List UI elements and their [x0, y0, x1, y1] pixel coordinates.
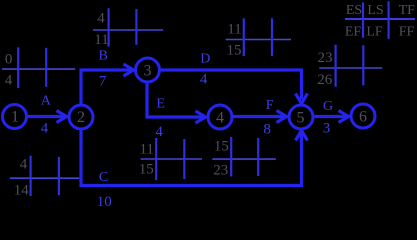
node 6 — [351, 104, 375, 128]
svg-text:3: 3 — [323, 121, 331, 137]
svg-text:6: 6 — [359, 108, 367, 125]
svg-text:15: 15 — [227, 43, 242, 59]
arrowhead B — [124, 64, 134, 76]
node 4 — [208, 105, 232, 129]
svg-text:15: 15 — [214, 139, 229, 155]
table A (ES/EF 0/4) — [2, 47, 75, 88]
table D (11/15) — [226, 18, 291, 58]
svg-text:4: 4 — [216, 109, 224, 126]
svg-text:EF: EF — [345, 25, 362, 40]
svg-text:4: 4 — [41, 121, 49, 137]
svg-text:C: C — [99, 170, 108, 185]
legend table — [345, 1, 415, 39]
svg-text:8: 8 — [263, 122, 271, 138]
svg-text:4: 4 — [155, 124, 163, 140]
table G (23/26) — [317, 45, 382, 88]
wire C — [81, 131, 302, 186]
svg-text:5: 5 — [297, 109, 305, 126]
node 3 — [136, 58, 160, 82]
svg-text:ES: ES — [346, 3, 362, 18]
svg-text:4: 4 — [5, 73, 13, 89]
svg-text:11: 11 — [227, 22, 241, 38]
wire E — [147, 84, 203, 118]
table E (11/15) — [139, 138, 202, 180]
svg-text:TF: TF — [399, 3, 416, 18]
svg-text:23: 23 — [213, 163, 228, 179]
svg-text:0: 0 — [5, 52, 13, 68]
wire A — [27, 115, 64, 118]
wire F — [233, 115, 284, 118]
svg-text:F: F — [266, 98, 274, 113]
wire G — [315, 115, 347, 118]
svg-text:10: 10 — [97, 194, 112, 210]
svg-text:11: 11 — [94, 32, 108, 48]
node 1 — [3, 105, 27, 129]
wire D — [161, 70, 302, 99]
node 5 — [289, 105, 313, 129]
svg-text:B: B — [99, 49, 108, 64]
svg-text:14: 14 — [14, 183, 30, 199]
arrowhead C — [296, 131, 308, 141]
svg-text:7: 7 — [99, 74, 107, 90]
arrowhead F — [277, 111, 287, 123]
svg-text:2: 2 — [77, 109, 85, 126]
svg-text:E: E — [156, 97, 165, 112]
svg-text:3: 3 — [144, 62, 152, 79]
svg-text:11: 11 — [139, 142, 153, 158]
arrowhead D — [296, 94, 308, 104]
svg-text:26: 26 — [317, 72, 333, 88]
table F (15/23) — [212, 137, 275, 179]
svg-text:G: G — [323, 99, 333, 114]
svg-text:D: D — [200, 51, 210, 66]
table B (4/11) — [93, 8, 163, 48]
table C (4/14) — [10, 156, 79, 199]
svg-text:1: 1 — [11, 109, 19, 126]
svg-text:4: 4 — [20, 157, 28, 173]
svg-text:4: 4 — [97, 11, 105, 27]
arrowhead E — [196, 111, 206, 123]
svg-text:23: 23 — [318, 50, 333, 66]
svg-text:4: 4 — [200, 72, 208, 88]
svg-text:FF: FF — [399, 25, 415, 40]
svg-text:15: 15 — [139, 162, 154, 178]
svg-text:LF: LF — [366, 25, 383, 40]
arrowhead G — [339, 111, 349, 123]
arrowhead A — [57, 111, 67, 123]
svg-text:LS: LS — [367, 3, 383, 18]
node 2 — [69, 105, 93, 129]
wire B — [81, 70, 131, 104]
svg-text:A: A — [41, 94, 52, 109]
